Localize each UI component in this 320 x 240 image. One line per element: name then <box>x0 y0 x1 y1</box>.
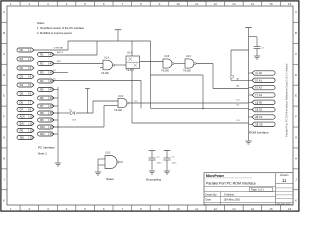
svg-text:10: 10 <box>176 2 180 6</box>
wire feeder row 3 <box>213 88 249 90</box>
svg-text:10: 10 <box>176 207 180 211</box>
svg-text:U1:A: U1:A <box>104 56 110 59</box>
ROM connector pin 20 (CS) <box>249 116 253 118</box>
wire net CLK with diode D1 <box>54 112 70 114</box>
svg-text:U1:E: U1:E <box>105 153 111 155</box>
svg-text:Page 1 of 1: Page 1 of 1 <box>251 189 264 192</box>
svg-text:CS: CS <box>259 115 263 119</box>
svg-text:R11: R11 <box>40 132 45 136</box>
wire U1B out to U1C <box>174 63 185 65</box>
svg-text:SEL: SEL <box>20 136 25 140</box>
svg-text:470: 470 <box>50 125 55 129</box>
svg-text:A: A <box>3 10 5 14</box>
svg-text:100n: 100n <box>172 162 178 164</box>
svg-text:R1: R1 <box>40 53 44 57</box>
svg-text:F: F <box>295 115 297 119</box>
resistor R4 470 <box>38 79 55 83</box>
ground under C5 <box>254 55 260 57</box>
nand gate U1:B <box>163 59 172 68</box>
ground spare <box>95 171 101 173</box>
svg-text:B: B <box>3 31 5 35</box>
pull-up tap <box>87 89 89 113</box>
svg-text:1. Simplified version of the P: 1. Simplified version of the PC interfac… <box>37 26 85 30</box>
svg-text:D3: D3 <box>20 75 24 79</box>
svg-text:Drawn By:: Drawn By: <box>206 193 218 196</box>
svg-text:16: 16 <box>288 2 292 6</box>
spare gate output stub <box>119 161 123 163</box>
svg-text:U1:B: U1:B <box>164 56 170 58</box>
wire stub row 5 <box>54 89 58 91</box>
svg-text:16: 16 <box>288 207 292 211</box>
U1D output feeder row 5 <box>129 102 249 104</box>
svg-text:B: B <box>295 31 297 35</box>
decoupling capacitor C4 <box>164 150 171 152</box>
svg-text:74LS00: 74LS00 <box>114 110 123 112</box>
svg-text:INIT: INIT <box>57 61 62 63</box>
svg-text:R3: R3 <box>40 71 44 75</box>
connector port J1 pin 5 (D4) <box>17 83 34 87</box>
ROM connector pin 7 (A3) <box>249 94 253 96</box>
svg-text:R5: R5 <box>40 88 44 92</box>
svg-text:26th May 2010: 26th May 2010 <box>277 203 292 206</box>
decoupling cap C5 branch <box>249 36 258 38</box>
svg-text:A3: A3 <box>259 93 263 97</box>
version cell <box>275 173 277 205</box>
connector port J1 pin 3 (D2) <box>17 66 34 70</box>
svg-text:PE: PE <box>20 129 24 133</box>
svg-text:Version: Version <box>280 174 289 177</box>
title block frame <box>204 173 293 205</box>
svg-text:470: 470 <box>50 62 55 66</box>
svg-text:470: 470 <box>50 88 55 92</box>
svg-text:R9: R9 <box>40 118 44 122</box>
svg-text:J Holland: J Holland <box>224 193 235 196</box>
svg-text:74LS00: 74LS00 <box>101 73 110 75</box>
ROM connector pin 22 (OE) <box>249 123 253 125</box>
wire U1C out trunk <box>196 63 213 65</box>
svg-text:E: E <box>3 94 5 98</box>
svg-text:R4: R4 <box>40 79 44 83</box>
diode D1 <box>71 111 75 115</box>
svg-text:ROM Interface: ROM Interface <box>249 131 269 135</box>
VCC symbol <box>117 30 119 41</box>
resistor R10 470 <box>38 125 55 129</box>
drawn by row <box>204 195 276 197</box>
wire resistor bus row 3 <box>54 72 68 74</box>
net label symbol <box>230 75 233 78</box>
page cell <box>204 185 276 187</box>
feeder row 7 <box>132 122 249 124</box>
svg-text:15: 15 <box>269 207 273 211</box>
svg-text:ACK: ACK <box>20 115 26 119</box>
U2 bottom pin long vertical <box>131 69 133 124</box>
svg-text:D6: D6 <box>20 101 24 105</box>
wire resistor bus row 4 <box>54 80 141 82</box>
connector port J1 pin 2 (D1) <box>17 57 34 61</box>
svg-text:F: F <box>3 115 5 119</box>
svg-text:K: K <box>3 198 5 202</box>
svg-text:PC Interface: PC Interface <box>38 145 55 149</box>
ROM connector pin 6 (A2) <box>249 87 253 89</box>
svg-text:74LS00: 74LS00 <box>161 70 170 72</box>
resistor R11 470 <box>38 132 55 136</box>
VCC tap to port A1 <box>231 49 249 51</box>
svg-text:R8: R8 <box>40 111 44 115</box>
svg-text:R7: R7 <box>40 104 44 108</box>
svg-text:12: 12 <box>214 207 218 211</box>
svg-text:A: A <box>295 10 297 14</box>
wire net AUTOFEED <box>54 54 97 56</box>
svg-text:100n: 100n <box>157 162 163 164</box>
svg-text:470: 470 <box>50 104 55 108</box>
svg-text:Decoupling: Decoupling <box>146 178 161 182</box>
svg-text:BSY: BSY <box>20 122 25 126</box>
wire net INIT to gate input <box>54 63 103 65</box>
svg-text:D0: D0 <box>20 48 24 52</box>
svg-text:D2: D2 <box>20 66 24 70</box>
svg-text:A2: A2 <box>259 86 263 90</box>
resistor R6 470 <box>38 96 55 100</box>
svg-text:74LS07: 74LS07 <box>126 70 135 72</box>
VCC rail / ROM port bus <box>248 28 250 141</box>
svg-text:Parallel Port PC ROM Interface: Parallel Port PC ROM Interface Reference… <box>285 63 289 137</box>
connector port J1 pin 8 (D7) <box>17 108 34 112</box>
svg-text:470: 470 <box>50 53 55 57</box>
svg-text:R6: R6 <box>40 96 44 100</box>
svg-text:Spare: Spare <box>106 177 114 181</box>
svg-text:11: 11 <box>282 178 287 183</box>
svg-text:D7: D7 <box>20 108 24 112</box>
svg-text:15th May 2010: 15th May 2010 <box>224 199 241 202</box>
power rail to gates <box>150 41 152 108</box>
svg-text:13: 13 <box>232 207 236 211</box>
wire net DATA to gate U1D <box>54 126 104 128</box>
connector port J1 pin 11 (BSY) <box>17 122 34 126</box>
svg-text:74LS00: 74LS00 <box>183 70 192 72</box>
resistor R7 470 <box>38 104 55 108</box>
U2 top pin to VCC rail <box>131 41 133 56</box>
svg-text:H: H <box>3 157 5 161</box>
svg-text:470: 470 <box>50 111 55 115</box>
svg-text:D0: D0 <box>259 100 263 104</box>
svg-text:A1: A1 <box>259 78 263 82</box>
svg-text:H: H <box>295 157 297 161</box>
nand gate U1:D <box>118 98 127 107</box>
resistor R8 470 <box>38 111 55 115</box>
resistor R5 470 <box>38 88 55 92</box>
wire U1A out to U2 <box>115 64 127 66</box>
svg-text:R10: R10 <box>40 125 45 129</box>
wire STROBE from port row 1 <box>34 49 68 51</box>
ROM connector pin 5 (A1) <box>249 79 253 81</box>
nand gate U1:C <box>185 59 194 68</box>
connector port J1 pin 4 (D3) <box>17 75 34 79</box>
resistor R1 470 <box>38 53 55 57</box>
spare gate inputs tied low <box>98 158 105 160</box>
svg-text:11: 11 <box>195 2 198 6</box>
wire stub row 7 <box>54 105 58 107</box>
resistor R9 470 <box>38 118 55 122</box>
svg-text:Note 1: Note 1 <box>38 151 47 155</box>
file cell <box>276 201 294 203</box>
svg-text:U1:D: U1:D <box>118 96 124 98</box>
svg-text:470: 470 <box>50 132 55 136</box>
U1D input 1 <box>93 100 118 102</box>
svg-text:Notes:: Notes: <box>37 21 45 25</box>
ROM connector pin 12 (D1) <box>249 109 253 111</box>
wire U2 out to U1B <box>140 61 163 63</box>
resistor R2 470 <box>38 62 55 66</box>
ground bus for unused inputs <box>57 87 59 163</box>
date row <box>204 201 276 203</box>
svg-text:CS: CS <box>237 120 241 122</box>
connector port J1 pin 1 (D0) <box>17 48 34 52</box>
ground symbol left bus <box>55 162 61 164</box>
border zone ticks and numbers (top/bottom) <box>19 1 21 6</box>
capacitor C5 <box>254 46 261 48</box>
svg-text:14: 14 <box>251 207 255 211</box>
svg-text:D4: D4 <box>20 83 24 87</box>
svg-text:A0: A0 <box>259 71 263 75</box>
svg-text:STROBE: STROBE <box>54 48 64 50</box>
wire resistor bus row 6 <box>54 97 58 99</box>
connector port J1 pin 12 (PE) <box>17 129 34 133</box>
svg-text:U1:C: U1:C <box>186 56 192 58</box>
connector port J1 pin 6 (D5) <box>17 92 34 96</box>
svg-text:AUTO: AUTO <box>57 51 63 54</box>
spare nand gate U1 <box>105 156 117 169</box>
svg-text:470: 470 <box>50 96 55 100</box>
buffer U2 <box>126 56 140 69</box>
wire stub row 9 <box>54 119 58 121</box>
wire drop to gate U1A <box>96 41 98 55</box>
ROM connector pin 4 (A0) <box>249 72 253 74</box>
border zone ticks and letters (left/right) <box>1 21 7 23</box>
connector port J1 pin 10 (ACK) <box>17 115 34 119</box>
wire riser to VCC rail <box>67 41 69 50</box>
svg-text:MicroPower: MicroPower <box>206 174 225 178</box>
svg-text:Parallel Port PC ROM Interface: Parallel Port PC ROM Interface <box>206 181 256 185</box>
VCC distribution wire <box>68 40 151 42</box>
svg-text:OE: OE <box>259 122 263 126</box>
connector port J1 pin 7 (D6) <box>17 101 34 105</box>
svg-text:13: 13 <box>232 2 236 6</box>
svg-text:12: 12 <box>214 2 218 6</box>
svg-text:K: K <box>295 198 297 202</box>
svg-text:CLK: CLK <box>72 120 77 122</box>
decoupling capacitor C3 <box>149 150 156 152</box>
wire stub row 11 <box>54 133 58 135</box>
svg-text:E: E <box>295 94 297 98</box>
svg-text:D1: D1 <box>20 57 24 61</box>
svg-text:R2: R2 <box>40 62 44 66</box>
wire feeder row 6 <box>151 107 249 109</box>
svg-text:D1: D1 <box>259 108 263 112</box>
svg-text:15: 15 <box>269 2 273 6</box>
sheet inner border <box>7 6 293 205</box>
svg-text:11: 11 <box>195 207 198 211</box>
svg-text:470: 470 <box>50 118 55 122</box>
svg-text:2. Modified to improve speed: 2. Modified to improve speed <box>37 31 72 35</box>
ROM connector pin 11 (D0) <box>249 101 253 103</box>
ground of VCC rail <box>245 140 251 142</box>
nand gate U1:A <box>103 60 113 70</box>
svg-text:D5: D5 <box>20 92 24 96</box>
resistor R3 470 <box>38 71 55 75</box>
svg-text:Date:: Date: <box>206 199 212 202</box>
svg-text:14: 14 <box>251 2 255 6</box>
wire feeder row 2 <box>231 79 249 81</box>
U1D input 2 <box>104 105 118 107</box>
connector port J1 pin 13 (SEL) <box>17 136 34 140</box>
